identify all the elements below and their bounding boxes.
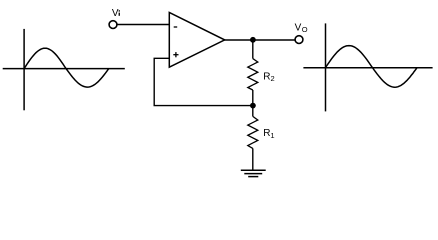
svg-text:1: 1 [270, 131, 274, 140]
svg-text:V: V [112, 8, 119, 19]
svg-text:O: O [302, 25, 308, 34]
svg-text:2: 2 [271, 74, 275, 83]
svg-text:V: V [295, 23, 302, 34]
svg-text:R: R [263, 128, 270, 139]
svg-text:R: R [263, 72, 270, 83]
